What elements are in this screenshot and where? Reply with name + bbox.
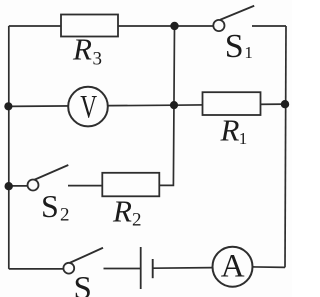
switch S1	[213, 6, 254, 65]
node: middle junction	[170, 101, 178, 109]
node: top junction	[170, 22, 178, 30]
node: left wire at V row	[4, 102, 12, 110]
svg-text:3: 3	[93, 49, 103, 70]
wire: right vertical	[285, 26, 286, 267]
wire: vertical branch from top node down to R2 right lead	[160, 26, 175, 185]
svg-text:A: A	[221, 248, 245, 284]
resistor R3	[61, 15, 118, 70]
svg-text:1: 1	[239, 129, 248, 148]
svg-text:S: S	[41, 188, 59, 224]
ammeter A	[213, 247, 253, 287]
node: right wire at R1 row	[281, 100, 289, 108]
svg-text:R: R	[72, 32, 92, 67]
wire: S2 switch to R2 left lead	[68, 185, 103, 187]
wire: ammeter to bottom-right corner	[253, 266, 285, 269]
wire: top horizontal left segment	[9, 25, 175, 27]
svg-text:2: 2	[60, 205, 70, 226]
wire: top horizontal right segment after switch S1	[252, 25, 286, 27]
wire: switch S to battery	[104, 268, 141, 270]
wire: top node to switch S1	[175, 25, 215, 27]
svg-text:S: S	[225, 28, 244, 65]
wire: middle horizontal through V and R1	[9, 104, 286, 106]
wire: left vertical	[8, 26, 10, 269]
svg-text:R: R	[220, 113, 240, 148]
resistor R2	[102, 173, 159, 231]
switch S2	[28, 165, 70, 226]
svg-text:1: 1	[244, 43, 253, 62]
node: left wire at S2 row	[5, 182, 13, 190]
voltmeter V	[68, 87, 108, 127]
svg-text:V: V	[80, 90, 97, 126]
wire: bottom horizontal from left corner to switch S	[9, 268, 64, 270]
battery cell	[141, 247, 153, 289]
wire: S2 row from left wire to switch circle	[9, 185, 28, 187]
resistor R1	[203, 92, 261, 148]
wire: battery to ammeter	[153, 267, 213, 270]
svg-text:S: S	[74, 271, 92, 297]
svg-text:R: R	[112, 193, 132, 228]
switch S	[63, 248, 103, 297]
svg-text:2: 2	[132, 210, 142, 231]
